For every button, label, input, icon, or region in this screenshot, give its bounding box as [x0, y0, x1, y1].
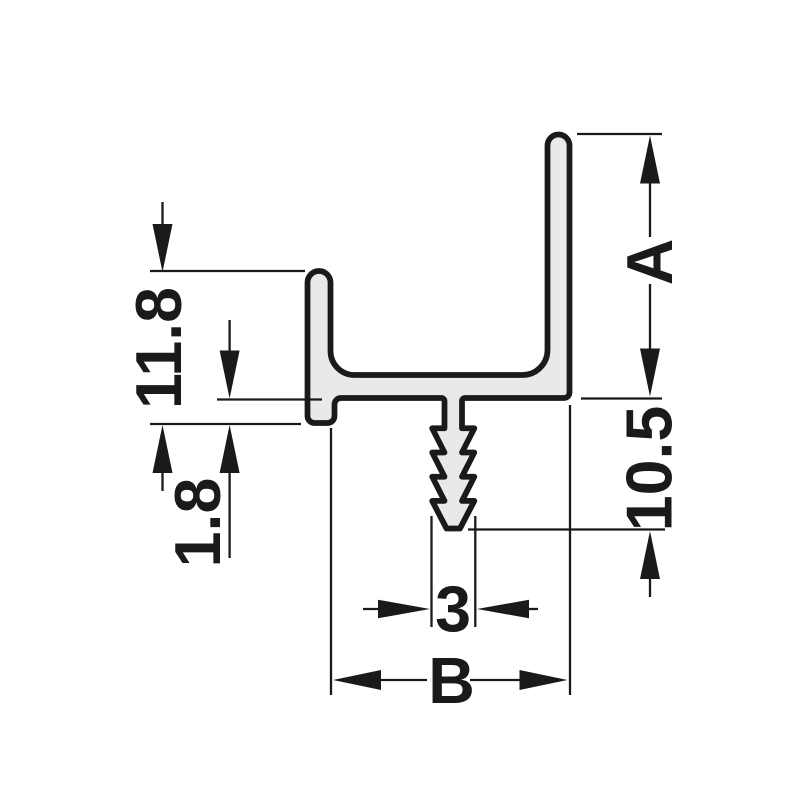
svg-text:3: 3: [435, 574, 471, 646]
svg-text:B: B: [428, 645, 475, 717]
svg-text:10.5: 10.5: [614, 406, 686, 532]
svg-text:A: A: [614, 239, 686, 286]
svg-text:1.8: 1.8: [162, 478, 234, 568]
svg-text:11.8: 11.8: [123, 287, 195, 409]
